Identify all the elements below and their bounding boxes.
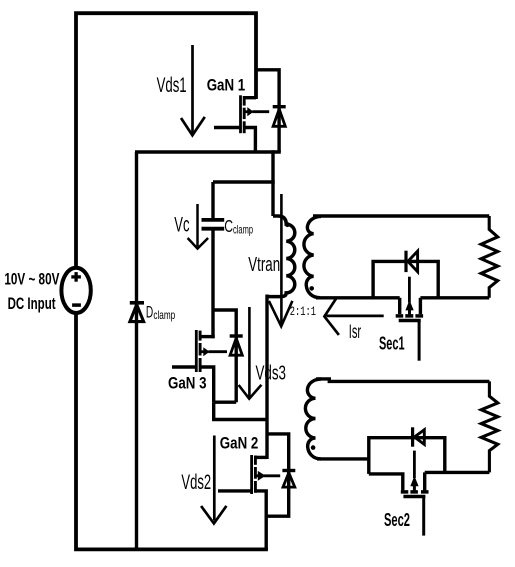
- wire: D3 branch top: [213, 310, 236, 402]
- wire: GaN3 drain stub: [200, 335, 215, 338]
- wire: sec2 SR box left and top: [369, 438, 445, 474]
- arrow Vds3: [239, 307, 262, 399]
- svg-text:GaN 1: GaN 1: [207, 76, 246, 94]
- svg-text:Isr: Isr: [349, 322, 362, 343]
- svg-text:Vc: Vc: [174, 214, 189, 237]
- arrow Isr: [324, 299, 383, 335]
- wire: sec1 bottom left: [316, 296, 400, 299]
- label: 10V ~ 80V DC Input: [4, 269, 59, 313]
- svg-text:GaN 3: GaN 3: [168, 375, 207, 393]
- arrow Vc: [188, 204, 209, 249]
- diode Dsec1: [406, 251, 418, 272]
- wire: GaN1 source to node152: [244, 128, 256, 153]
- wire: D2 branch top: [266, 434, 289, 516]
- primary polarity dot: [285, 222, 290, 227]
- resistor R2 load: [481, 381, 498, 472]
- wire: GaN3 gate lead: [172, 365, 197, 368]
- wire: sec1 bottom right: [420, 296, 489, 299]
- wire: input loop bottom (left rail bottom, bottom rail): [76, 313, 268, 550]
- wire: GaN3 branch to primary rail: [214, 402, 267, 419]
- wire: GaN2 source to bottom rail: [256, 491, 267, 550]
- arrow Vds1: [181, 45, 205, 135]
- wire: Dclamp branch: [135, 152, 138, 549]
- SR transistor Sec2: [401, 451, 429, 536]
- transformer T1 primary winding: [267, 216, 295, 297]
- voltage source V1 10V-80V DC: [61, 268, 90, 313]
- wire: GaN1 drain stub: [244, 96, 256, 99]
- transformer T1 secondary 1 winding: [304, 216, 321, 297]
- wire: input loop top (left rail top, top rail, right rail): [76, 13, 256, 269]
- diode D1: [273, 107, 286, 127]
- transistor GaN1: [241, 95, 270, 133]
- svg-text:Vtran: Vtran: [248, 254, 280, 276]
- wire: sec2 bottom right: [425, 471, 490, 474]
- wire: sec2 SR source lead: [423, 472, 426, 490]
- wire: sec1 top rail: [313, 214, 489, 217]
- svg-text:Vds3: Vds3: [256, 362, 287, 385]
- wire: clamp node at y=152: [135, 150, 281, 153]
- sec1 polarity dot: [309, 286, 314, 291]
- svg-text:2:1:1: 2:1:1: [290, 304, 316, 319]
- wire: sec1 SR drain lead: [398, 298, 401, 314]
- transistor GaN3: [196, 330, 227, 372]
- arrow Vds2: [201, 436, 226, 524]
- wire: GaN3 source down: [200, 367, 214, 402]
- wire: sec2 top rail with jog: [316, 379, 489, 382]
- svg-text:Vds1: Vds1: [157, 74, 187, 97]
- svg-text:D: D: [146, 303, 153, 322]
- wire: GaN2 gate lead: [218, 489, 252, 492]
- capacitor Cclamp: [202, 220, 225, 229]
- wire: GaN1 gate lead: [214, 126, 241, 129]
- svg-text:Vds2: Vds2: [181, 471, 211, 494]
- arrow Vtran: [269, 194, 293, 326]
- svg-text:10V ~ 80V: 10V ~ 80V: [4, 269, 59, 288]
- svg-text:DC Input: DC Input: [8, 294, 56, 313]
- wire: primary bottom down to GaN2 drain: [265, 295, 268, 460]
- resistor R1 load: [481, 216, 498, 298]
- wire: sec1 SR box left and top: [373, 261, 438, 297]
- svg-text:Sec1: Sec1: [379, 334, 405, 354]
- label Dclamp: [146, 303, 176, 322]
- wire: GaN2 drain stub: [256, 456, 268, 459]
- label Cclamp: [224, 216, 253, 237]
- wire: node152 down to clamp-cap node: [271, 150, 274, 216]
- diode D3: [230, 336, 243, 355]
- SR transistor Sec1: [396, 277, 423, 361]
- wire: Cclamp bottom lead down to GaN3 drain: [211, 230, 214, 338]
- transistor GaN2: [252, 455, 281, 494]
- wire: sec2 bottom left: [317, 457, 369, 460]
- wire: Cclamp top lead: [211, 182, 214, 218]
- svg-text:clamp: clamp: [153, 308, 175, 322]
- diode Dclamp: [130, 303, 144, 322]
- wire: sec2 SR box bottom-left and drain lead: [369, 474, 403, 491]
- wire: GaN3 source to D3 join: [214, 401, 237, 404]
- svg-text:GaN 2: GaN 2: [220, 435, 258, 453]
- diode Dsec2: [413, 427, 425, 446]
- svg-text:C: C: [224, 216, 233, 236]
- wire: sec1 SR source lead: [419, 298, 422, 314]
- wire: D1 branch top: [256, 70, 279, 152]
- wire: clamp-cap node horizontal y=182: [213, 180, 275, 183]
- svg-text:clamp: clamp: [233, 222, 253, 236]
- sec2 polarity dot: [311, 445, 316, 450]
- transformer T1 secondary 2 winding: [305, 379, 321, 459]
- svg-text:Sec2: Sec2: [384, 510, 410, 530]
- diode D2: [282, 471, 295, 488]
